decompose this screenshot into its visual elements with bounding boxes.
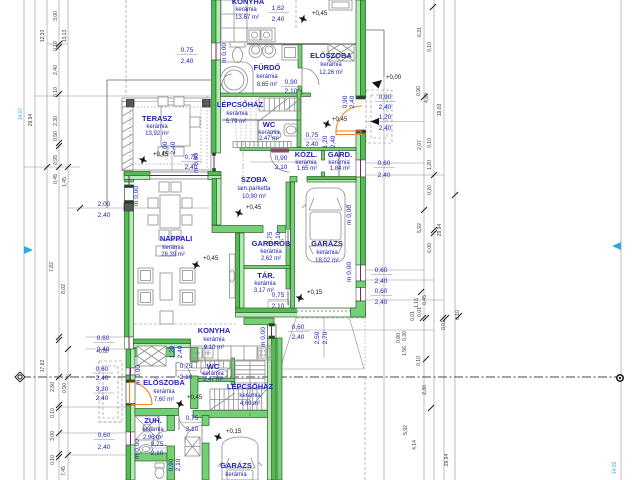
svg-text:+0,45: +0,45: [332, 117, 348, 123]
terrace pillar NE: [203, 100, 211, 108]
wc room toilet: [271, 131, 281, 139]
dimension chain line 1: [23, 0, 25, 480]
svg-text:0,01: 0,01: [441, 320, 447, 330]
staircase dashed flight under: [236, 98, 256, 145]
gardrob-tar partition: [244, 266, 290, 269]
m 0,00 rotated labels: [133, 43, 356, 472]
door dim 0,75/2,40 wc upper: [303, 132, 321, 148]
terrace pillar NW: [127, 100, 135, 108]
window dim 0,60/2,40 east 2: [371, 267, 392, 285]
svg-text:8,65 m²: 8,65 m²: [257, 82, 277, 88]
svg-text:12,26 m²: 12,26 m²: [319, 70, 343, 76]
window east wall 3: [356, 288, 366, 302]
label KONYHA upper: [232, 0, 265, 21]
door dim 0,90/2,10 bath: [281, 79, 302, 95]
west wall lower segment D: [126, 445, 135, 480]
door dim rotated zuh: [148, 441, 166, 457]
svg-text:7,60 m²: 7,60 m²: [154, 397, 174, 403]
leader line x384: [383, 77, 385, 480]
svg-text:0,75: 0,75: [151, 441, 164, 448]
szoba door arc: [271, 153, 290, 172]
svg-text:0,90: 0,90: [168, 458, 175, 471]
door dim 0,75/2,10 stairs lower: [182, 415, 203, 433]
svg-text:GARÁZS: GARÁZS: [220, 461, 252, 470]
svg-text:m 0,00: m 0,00: [133, 186, 140, 206]
label FÜRDŐ: [254, 63, 281, 88]
svg-text:TERASZ: TERASZ: [142, 114, 172, 123]
wc room north wall thin: [222, 119, 301, 121]
svg-text:kerámia: kerámia: [235, 7, 257, 13]
svg-text:ELŐSZOBA: ELŐSZOBA: [310, 51, 352, 60]
bath door arc: [302, 68, 319, 85]
connector y96: [35, 95, 211, 97]
svg-text:2,10: 2,10: [186, 426, 199, 433]
label LÉPCSŐHÁZ upper: [217, 100, 264, 125]
svg-text:2,07: 2,07: [417, 140, 423, 150]
right chain line 1: [423, 0, 425, 480]
entrance door lower (orange): [130, 382, 153, 405]
dashed setback line x126: [125, 0, 127, 96]
svg-text:2,47 m²: 2,47 m²: [203, 377, 223, 383]
svg-text:2,40: 2,40: [379, 125, 392, 132]
eaves line upper right: [383, 30, 385, 77]
dimension chain line 2: [34, 0, 36, 480]
svg-text:2,10: 2,10: [180, 374, 193, 381]
elsoszoba wardrobe hatched: [328, 44, 354, 61]
garage north wall: [307, 177, 356, 183]
svg-text:m 0,00: m 0,00: [346, 262, 353, 282]
door dim rotated gardrob: [267, 231, 282, 244]
bath north counter wall thin: [247, 43, 356, 45]
svg-text:19,03: 19,03: [437, 104, 443, 117]
svg-text:1,45: 1,45: [62, 177, 68, 187]
secondary east wall strip: [277, 338, 282, 480]
window dim 3,20/2,40 west door: [93, 386, 114, 402]
chimney hatched block: [137, 346, 166, 366]
svg-text:5,92: 5,92: [417, 223, 423, 233]
bath washing machine: [282, 45, 298, 60]
svg-text:kerámia: kerámia: [254, 281, 276, 287]
svg-text:2,40: 2,40: [378, 172, 391, 179]
door dim 0,90/2,10 kozl: [275, 155, 288, 171]
ticks right chains: [418, 4, 462, 411]
svg-text:28,39 m²: 28,39 m²: [161, 252, 185, 258]
svg-text:LÉPCSŐHÁZ: LÉPCSŐHÁZ: [217, 100, 264, 109]
nappali armchair 3: [180, 268, 195, 283]
terrace inner dotted border: [130, 107, 201, 164]
west wall piece above terrace door: [125, 180, 134, 183]
svg-text:7,82: 7,82: [49, 262, 55, 272]
svg-text:0,45: 0,45: [53, 174, 59, 184]
svg-text:2,40: 2,40: [306, 141, 319, 148]
svg-text:0,90: 0,90: [285, 79, 298, 86]
svg-text:kerámia: kerámia: [153, 389, 175, 395]
svg-text:2,40: 2,40: [97, 346, 110, 353]
dimension chain line 3: [46, 0, 48, 480]
car lower garage: [218, 437, 262, 480]
svg-text:KONYHA: KONYHA: [198, 326, 231, 335]
window dim rotated kitchen lower: [169, 345, 184, 358]
svg-text:18,02 m²: 18,02 m²: [315, 258, 339, 264]
nappali chairs: [148, 182, 192, 240]
svg-text:12,33: 12,33: [40, 30, 46, 43]
svg-text:+0,45: +0,45: [203, 256, 219, 262]
svg-text:13,92 m²: 13,92 m²: [145, 131, 169, 137]
dimension chain line 4: [58, 0, 60, 480]
svg-text:0,10: 0,10: [416, 356, 422, 366]
zuh toilet: [155, 463, 164, 479]
upper unit east wall segment C: [356, 177, 366, 265]
svg-text:0,45: 0,45: [422, 295, 428, 305]
svg-text:8,02: 8,02: [61, 284, 67, 294]
bath washbasin 1: [249, 45, 262, 58]
cyan arrow marker right: [612, 242, 621, 250]
svg-text:0,10: 0,10: [455, 310, 461, 320]
window west wall lower 1: [126, 368, 135, 375]
nappali armchair 1: [138, 268, 153, 283]
svg-text:2,10: 2,10: [275, 164, 288, 171]
svg-text:6,31: 6,31: [417, 27, 423, 37]
svg-text:0,90: 0,90: [342, 95, 349, 108]
terrace door opening west: [125, 185, 134, 203]
east wall door m0,00: [268, 324, 277, 339]
svg-text:4,80: 4,80: [424, 93, 430, 103]
label ELŐSZOBA upper: [310, 51, 352, 76]
gardrob east wall thin: [286, 182, 290, 289]
lower-unit north wall bar east: [244, 318, 274, 325]
svg-text:m 0,00: m 0,00: [135, 365, 142, 385]
right rotated dimension values: [396, 27, 618, 474]
door arc stairs south: [179, 416, 193, 430]
svg-text:2,47 m²: 2,47 m²: [259, 136, 279, 142]
bath east wall: [298, 44, 302, 68]
svg-text:2,70: 2,70: [322, 331, 329, 344]
svg-text:4,14: 4,14: [412, 440, 418, 450]
label WC lower: [202, 362, 224, 383]
svg-text:0,90: 0,90: [275, 155, 288, 162]
eloszoba door arc to wc: [176, 362, 191, 376]
svg-text:29,94: 29,94: [444, 454, 450, 467]
svg-text:m 0,00: m 0,00: [260, 327, 267, 347]
svg-text:2,40: 2,40: [375, 278, 388, 285]
svg-text:kerámia: kerámia: [142, 427, 164, 433]
eloszoba/zuh + stairs south wall: [135, 409, 179, 416]
svg-text:kerámia: kerámia: [320, 62, 342, 68]
upper unit east wall segment B: [356, 133, 366, 160]
svg-text:0,10: 0,10: [50, 455, 56, 465]
right connector y330: [296, 329, 434, 331]
svg-text:0,30: 0,30: [402, 331, 408, 341]
eaves line corner upper-left: [106, 80, 108, 208]
svg-text:kerámia: kerámia: [260, 249, 282, 255]
svg-text:2,40: 2,40: [292, 334, 305, 341]
ticks left chains: [44, 41, 83, 460]
wc room radiator: [233, 142, 291, 148]
svg-text:3,00: 3,00: [53, 11, 59, 21]
svg-text:2,40: 2,40: [375, 299, 388, 306]
entry door upper (orange): [336, 106, 362, 135]
nappali north glazing: [150, 172, 208, 179]
svg-text:4,60 m²: 4,60 m²: [240, 401, 260, 407]
entry niche leader line: [366, 121, 425, 123]
zuh east wall: [167, 416, 175, 431]
label SZOBA: [237, 175, 271, 200]
svg-text:0,60: 0,60: [378, 160, 391, 167]
svg-text:0,95: 0,95: [53, 155, 59, 165]
right connector y270: [366, 269, 424, 271]
window dim 0,60/2,40 west lower1: [93, 366, 114, 382]
svg-text:14,07: 14,07: [18, 108, 24, 121]
svg-text:7,45: 7,45: [61, 466, 67, 476]
corner bathtub: [221, 62, 254, 96]
svg-text:0,10: 0,10: [53, 87, 59, 97]
UPPERFURN: [122, 0, 362, 324]
property line dash-dot: [22, 376, 618, 378]
eloszoba east wall: [191, 348, 199, 363]
lower staircase: [210, 389, 267, 416]
label ELŐSZOBA lower: [143, 378, 185, 403]
garage door opening in south wall: [297, 309, 352, 317]
window east wall 1: [356, 160, 366, 177]
svg-text:2,40: 2,40: [96, 395, 109, 402]
gard inner line: [338, 151, 340, 178]
svg-text:9,10 m²: 9,10 m²: [204, 345, 224, 351]
svg-text:2,10: 2,10: [175, 458, 182, 471]
gard door gap: [286, 230, 290, 245]
label NAPPALI: [160, 234, 192, 258]
svg-text:2,50: 2,50: [314, 331, 321, 344]
svg-text:0,10: 0,10: [53, 41, 59, 51]
right connector y280: [366, 279, 434, 281]
svg-text:0,75: 0,75: [267, 231, 274, 244]
party wall band upper: [134, 339, 191, 348]
svg-text:m 0,00: m 0,00: [346, 205, 353, 225]
nappali chair south: [160, 311, 173, 324]
svg-text:0,75: 0,75: [180, 363, 193, 370]
svg-text:0,60: 0,60: [375, 267, 388, 274]
dashed line left of lower unit: [99, 421, 122, 423]
west wall lower segment B: [126, 375, 135, 382]
connector y208 terrace door leader: [68, 207, 210, 209]
connector y44: [47, 43, 68, 45]
label GARDRÓB: [252, 239, 291, 262]
garage west door arc: [185, 426, 202, 443]
shower tray: [135, 416, 159, 440]
terrace east dotted edge: [206, 96, 208, 170]
skylight rect top: [329, 0, 352, 10]
svg-text:m 0,00: m 0,00: [134, 439, 141, 459]
door gap west wall (m 0,00): [213, 153, 216, 171]
label KONYHA lower: [198, 326, 231, 351]
svg-text:0,20: 0,20: [427, 185, 433, 195]
door dim 0,75/2,10 tar: [268, 292, 289, 310]
stair east wall: [297, 90, 301, 147]
svg-text:0,01: 0,01: [410, 311, 416, 321]
right chain line 2: [433, 0, 435, 480]
svg-text:2,00: 2,00: [98, 201, 111, 208]
nappali north wall east part: [208, 172, 221, 180]
entry dim 0,90/2,40: [375, 94, 396, 111]
window dim 0,60/2,40 west lower2: [94, 432, 115, 451]
right chain line 4: [454, 0, 456, 480]
upper unit west wall segment A: [212, 0, 221, 43]
svg-text:ZUH.: ZUH.: [144, 416, 162, 425]
connector y167: [24, 166, 80, 168]
svg-text:29,94: 29,94: [28, 114, 34, 127]
zuh partial south wall: [135, 453, 167, 461]
connector y337 window leader: [85, 336, 124, 338]
entrance mat lower (dashed): [99, 361, 122, 422]
svg-text:0,75: 0,75: [272, 292, 285, 299]
szoba sliding door leaf: [230, 254, 236, 298]
LOWERFURN: [130, 346, 273, 480]
right connector y175: [366, 174, 444, 176]
svg-text:2,10: 2,10: [275, 231, 282, 244]
right connector y163: [366, 162, 424, 164]
svg-text:KONYHA: KONYHA: [232, 0, 265, 6]
svg-text:2,40: 2,40: [181, 58, 194, 65]
terrace door jamb purple: [128, 176, 130, 185]
svg-text:6,00: 6,00: [427, 243, 433, 253]
terrace chairs: [158, 97, 200, 156]
west wall lower segment A: [126, 349, 135, 368]
svg-text:0,90: 0,90: [379, 94, 392, 101]
svg-text:5,79 m²: 5,79 m²: [226, 119, 246, 125]
upper unit east wall segment D: [356, 281, 366, 288]
window west wall lower 2: [126, 432, 135, 445]
svg-text:13,67 m²: 13,67 m²: [235, 15, 259, 21]
svg-text:0,10: 0,10: [427, 138, 433, 148]
window west wall nappali: [125, 337, 134, 349]
svg-text:2,40: 2,40: [177, 345, 184, 358]
connector y349 window leader: [85, 348, 124, 350]
garage west wall: [202, 416, 209, 426]
svg-text:0,60: 0,60: [96, 366, 109, 373]
wc room basin: [284, 124, 298, 136]
svg-text:2,80: 2,80: [50, 382, 56, 392]
svg-text:kerámia: kerámia: [146, 124, 168, 130]
upper unit east wall segment A: [356, 0, 366, 96]
svg-text:+0,15: +0,15: [307, 290, 323, 296]
svg-text:2,40: 2,40: [379, 104, 392, 111]
svg-text:0,10: 0,10: [427, 42, 433, 52]
cyan arrow marker left: [24, 246, 33, 254]
door dim 2,00/2,40 terrace: [98, 201, 111, 219]
szoba south wall east piece: [278, 226, 287, 233]
nappali north wall west part: [124, 172, 150, 180]
svg-text:+0,45: +0,45: [312, 11, 328, 17]
svg-text:2,62 m²: 2,62 m²: [261, 256, 281, 262]
svg-text:kerámia: kerámia: [316, 250, 338, 256]
svg-text:0,10: 0,10: [50, 408, 56, 418]
svg-text:1,20: 1,20: [427, 160, 433, 170]
west wall pier (dark): [124, 203, 134, 211]
stair upper treads lower unit: [235, 361, 265, 388]
west wall segment C below corner: [212, 179, 221, 226]
svg-text:kerámia: kerámia: [162, 245, 184, 251]
party wall band lower: [134, 349, 175, 357]
kitchen dashed line top: [295, 0, 297, 28]
svg-text:KÖZL.: KÖZL.: [295, 150, 318, 159]
zuh door arc: [153, 431, 168, 446]
staircase upper flight: [259, 98, 300, 121]
RIGHTDIMS: [296, 0, 621, 480]
svg-text:2,30: 2,30: [422, 385, 428, 395]
svg-text:LÉPCSŐHÁZ: LÉPCSŐHÁZ: [227, 382, 274, 391]
svg-text:1,56: 1,56: [402, 346, 408, 356]
svg-text:3,00: 3,00: [50, 431, 56, 441]
svg-text:1,84 m²: 1,84 m²: [330, 166, 350, 172]
dining table nappali: [160, 195, 180, 228]
svg-text:29,94: 29,94: [437, 224, 443, 237]
svg-text:+0,45: +0,45: [246, 205, 262, 211]
bath wc: [230, 42, 245, 63]
survey marker right: [617, 375, 623, 381]
level marks: [137, 11, 402, 443]
nappali armchair 4: [180, 290, 195, 305]
label GARÁZS upper: [311, 239, 343, 264]
connector y433: [59, 432, 126, 434]
svg-text:lam.parketta: lam.parketta: [237, 186, 271, 192]
wc lower radiator row: [192, 361, 230, 368]
right chain line 3: [443, 0, 445, 480]
terrace outline: [122, 98, 211, 170]
svg-text:1,16: 1,16: [414, 298, 420, 308]
entrance mat upper (dashed): [366, 90, 392, 143]
svg-text:0,75: 0,75: [306, 132, 319, 139]
wc/stairs partition: [231, 358, 235, 385]
nappali sideboard: [156, 246, 176, 256]
svg-text:+0,45: +0,45: [153, 152, 169, 158]
wc-kozl wall horizontal: [240, 148, 356, 151]
label WC upper: [258, 120, 280, 142]
svg-text:1,20: 1,20: [322, 135, 329, 148]
svg-text:+0,15: +0,15: [226, 429, 242, 435]
svg-text:0,90: 0,90: [62, 383, 68, 393]
left rotated dimension values: [18, 11, 68, 476]
west wall nappali segment: [125, 211, 134, 337]
nappali coffee table: [160, 273, 172, 300]
LEFTDIMS: [18, 0, 211, 480]
kozl-gard partition: [322, 151, 325, 161]
svg-text:NAPPALI: NAPPALI: [160, 234, 192, 243]
svg-text:2,40: 2,40: [53, 65, 59, 75]
lower wc basin: [201, 368, 210, 375]
duct hatched block lower: [185, 437, 200, 456]
label TÁR: [254, 271, 277, 294]
svg-text:WC: WC: [207, 362, 220, 371]
svg-text:GARÁZS: GARÁZS: [311, 239, 343, 248]
entry dim 1,20/2,40: [379, 114, 392, 132]
zuh washbasin: [140, 445, 153, 454]
terrace dining table: [161, 105, 190, 146]
window east wall 2: [356, 265, 366, 281]
connector y455: [68, 454, 127, 456]
upper unit west wall segment B: [212, 60, 221, 153]
wc south thin wall: [198, 379, 235, 382]
connector y407: [59, 406, 126, 408]
label TERASZ: [142, 114, 172, 137]
svg-text:FÜRDŐ: FÜRDŐ: [254, 63, 281, 72]
LOWERWALLS: [124, 176, 282, 480]
tar door gap: [286, 291, 290, 305]
svg-text:1,65 m²: 1,65 m²: [297, 166, 317, 172]
label LÉPCSŐHÁZ lower: [227, 382, 274, 407]
right connector y300: [366, 299, 444, 301]
plot edge line right: [620, 0, 622, 480]
window dim 0,60/2,40 lower east: [288, 324, 309, 341]
svg-text:0,01: 0,01: [417, 307, 423, 317]
